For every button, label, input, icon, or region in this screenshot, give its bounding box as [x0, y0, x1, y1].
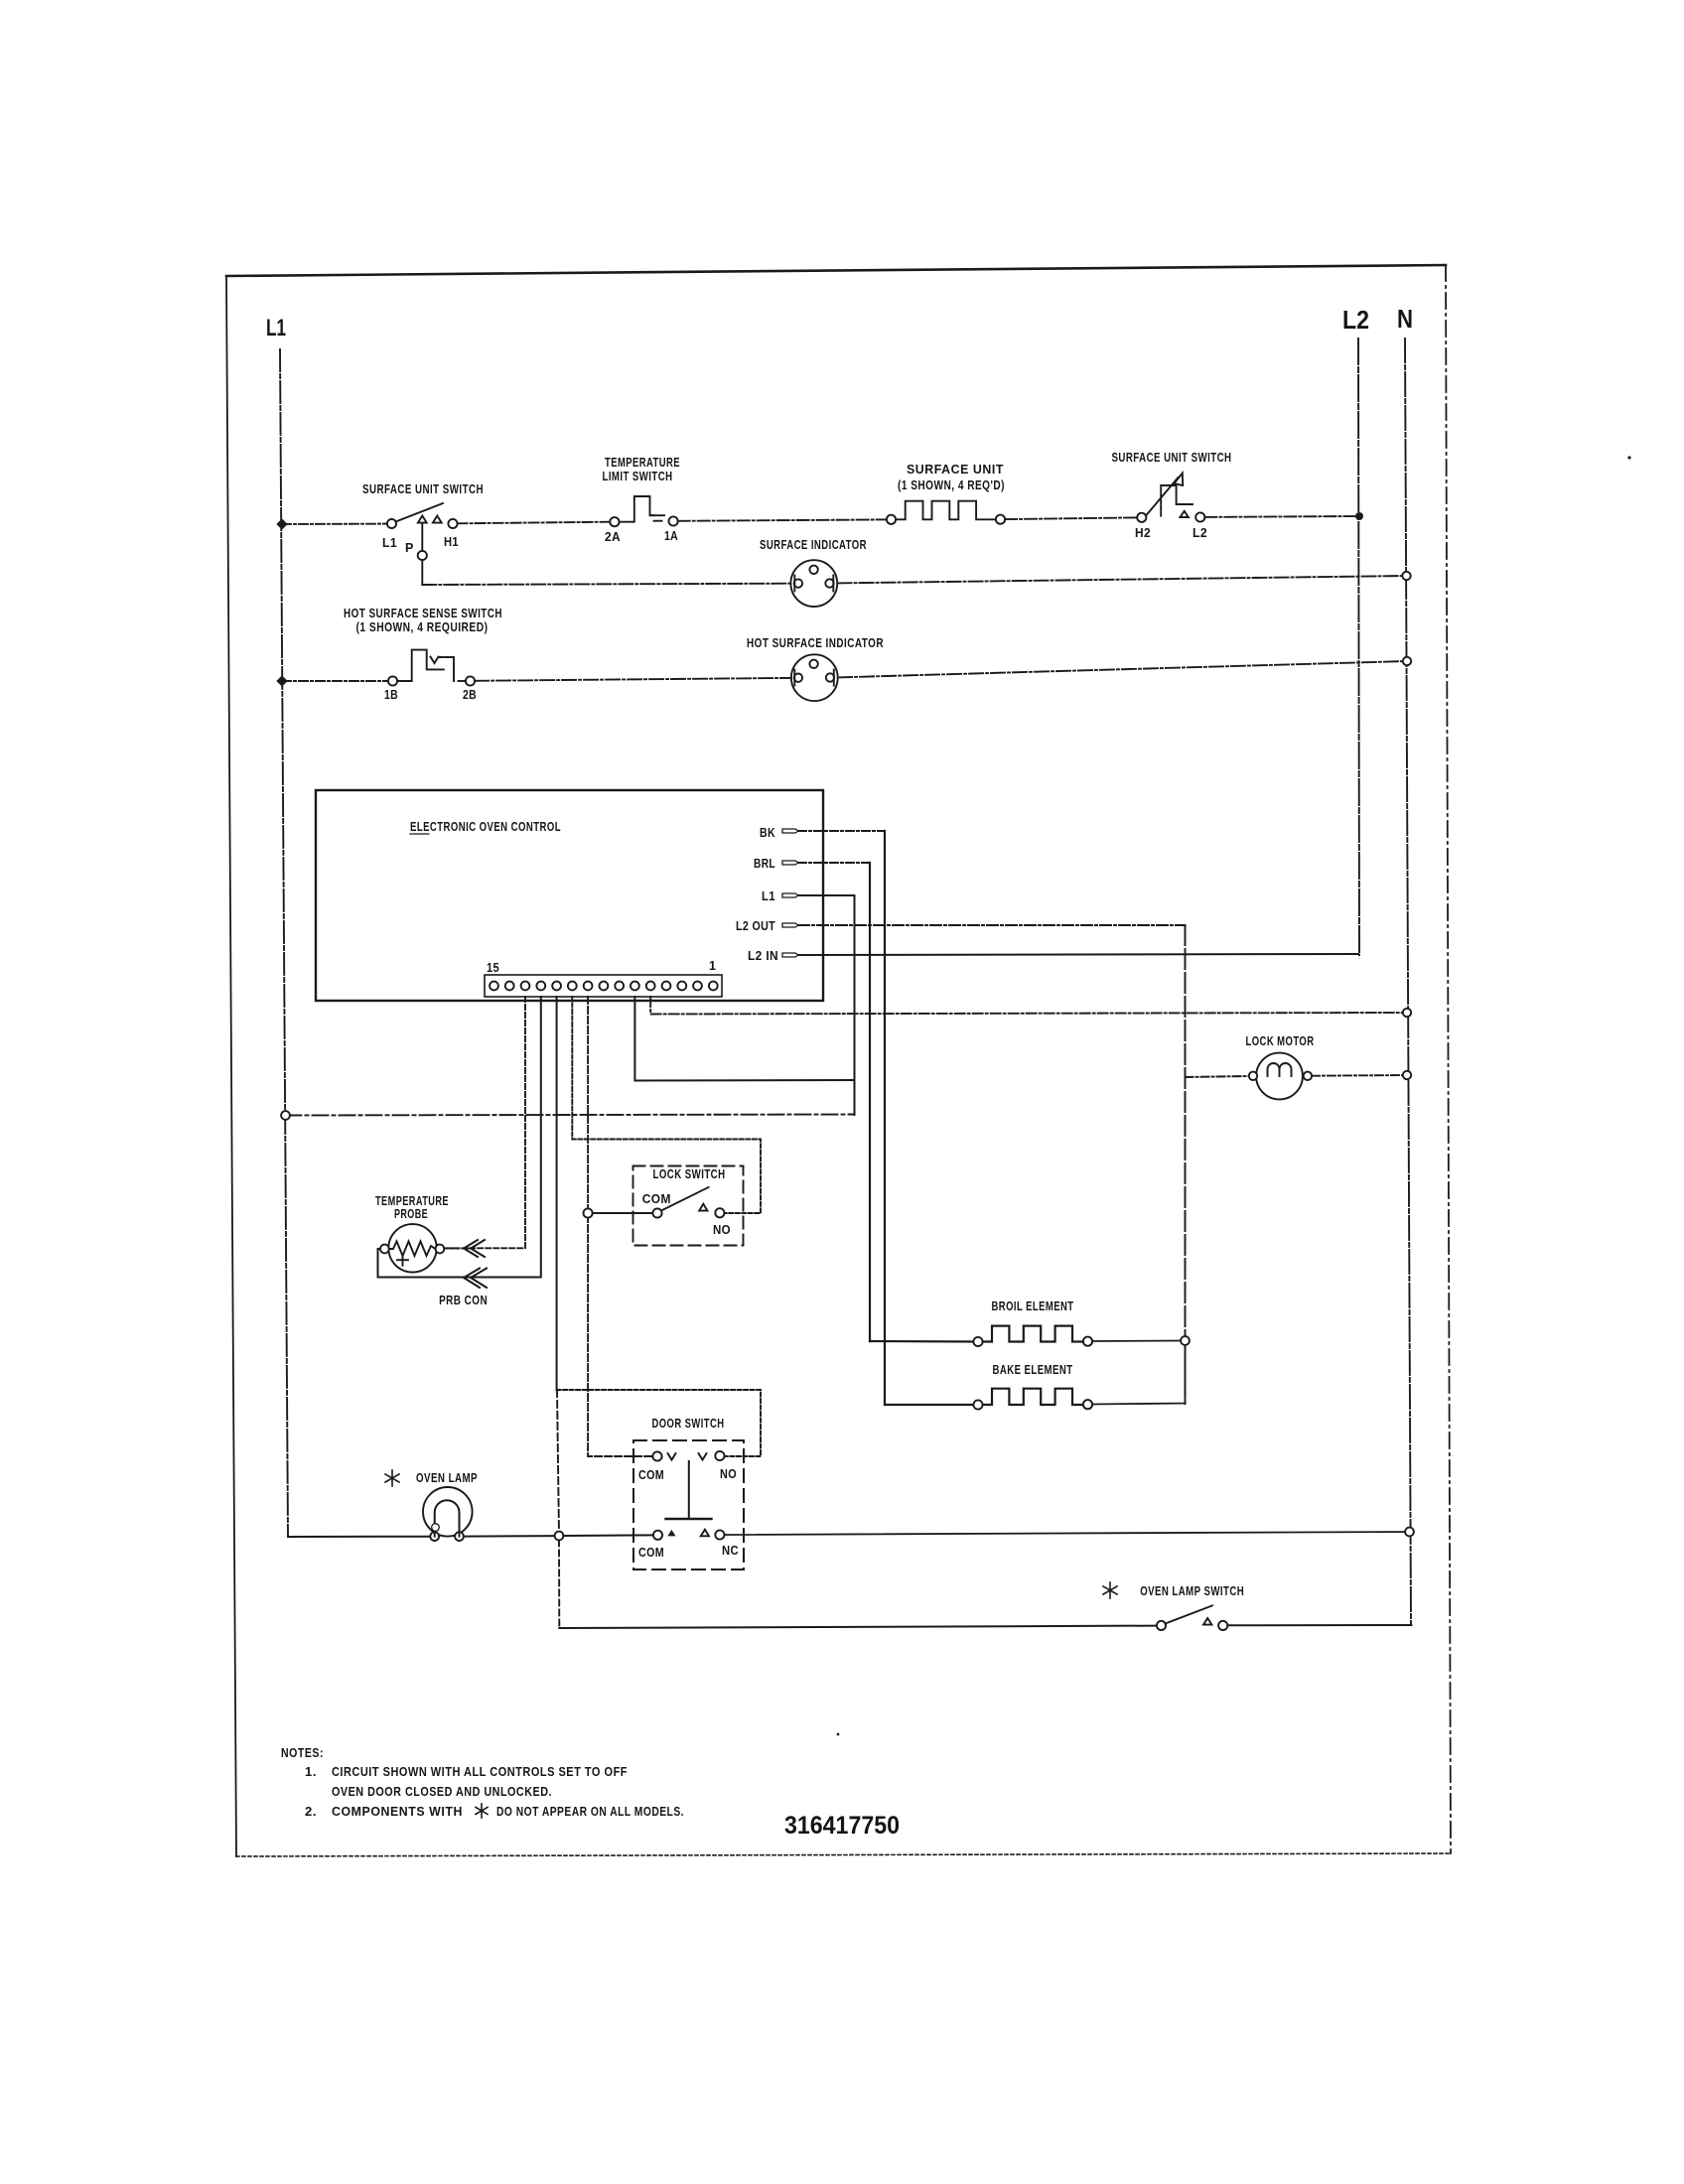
svg-text:N: N — [1397, 304, 1413, 334]
junction circle on N bus pin5 row — [1403, 1009, 1411, 1017]
wire L2 terminal to L2 bus — [1204, 515, 1359, 518]
svg-text:L2: L2 — [1342, 305, 1369, 335]
speck near part number — [837, 1733, 840, 1736]
wire lock motor row left — [1186, 1076, 1250, 1077]
wire row2 left — [422, 584, 790, 585]
wire row2 right to N bus — [838, 576, 1407, 583]
svg-text:L2 IN: L2 IN — [748, 949, 778, 963]
svg-text:PROBE: PROBE — [394, 1206, 428, 1221]
svg-text:NOTES:: NOTES: — [281, 1745, 324, 1760]
svg-text:COM: COM — [638, 1468, 664, 1482]
svg-text:15: 15 — [487, 961, 499, 975]
svg-text:TEMPERATURE: TEMPERATURE — [605, 455, 680, 470]
wire L1 bus vertical — [280, 349, 288, 1537]
junction circle broil/L2OUT — [1181, 1336, 1190, 1345]
wire BRL to broil element feed — [798, 862, 870, 864]
svg-text:2.: 2. — [305, 1804, 317, 1819]
svg-text:P: P — [405, 541, 414, 555]
wire lock motor row right to N bus — [1312, 1074, 1407, 1077]
svg-text:316417750: 316417750 — [784, 1812, 900, 1840]
wire L1 bus corner to oven lamp — [288, 1536, 430, 1538]
junction on L1 bus row1 — [276, 518, 287, 529]
wire L2 bus vertical — [1358, 339, 1359, 955]
wire block pin6 to L1 node — [634, 997, 854, 1081]
surface unit switch SW1 (left) — [387, 503, 458, 528]
wire L1 bus row to EOC L1 — [286, 1115, 855, 1116]
junction circle on N bus lamp row — [1405, 1528, 1414, 1537]
temperature limit switch S2 — [610, 496, 677, 526]
hot surface sense switch S3 — [388, 650, 475, 686]
wire block pin10 to lock switch NO — [572, 997, 761, 1213]
pin BRL — [754, 857, 798, 871]
op-box electronic oven control U1 — [316, 790, 823, 1001]
svg-text:BROIL ELEMENT: BROIL ELEMENT — [992, 1298, 1074, 1313]
junction circle on N bus lock motor row — [1403, 1071, 1411, 1079]
svg-text:CIRCUIT SHOWN WITH ALL CONTROL: CIRCUIT SHOWN WITH ALL CONTROLS SET TO O… — [332, 1764, 628, 1779]
svg-text:COM: COM — [642, 1192, 671, 1206]
svg-text:L1: L1 — [266, 315, 286, 341]
connector PRB CON top chevrons — [464, 1240, 485, 1257]
surface unit switch SW2 (right) — [1137, 474, 1204, 522]
wire bake row left — [885, 1404, 974, 1406]
svg-text:COMPONENTS WITH: COMPONENTS WITH — [332, 1804, 463, 1819]
wire L2 OUT to lock motor / elements vertical — [798, 924, 1186, 926]
svg-text:OVEN LAMP SWITCH: OVEN LAMP SWITCH — [1140, 1583, 1244, 1598]
wire L1 bus to surface unit switch L1 terminal — [282, 523, 387, 525]
svg-text:PRB CON: PRB CON — [439, 1293, 488, 1307]
svg-text:OVEN DOOR CLOSED AND UNLOCKED.: OVEN DOOR CLOSED AND UNLOCKED. — [332, 1784, 552, 1799]
pin BK — [760, 826, 798, 840]
hot surface indicator lamp DS2 — [791, 654, 838, 701]
broil element R2 — [973, 1326, 1092, 1347]
svg-text:COM: COM — [638, 1546, 664, 1560]
lock motor M1 — [1249, 1053, 1312, 1100]
svg-text:DOOR SWITCH: DOOR SWITCH — [652, 1416, 725, 1431]
svg-text:1B: 1B — [384, 688, 398, 702]
wire 1A to surface unit — [678, 519, 887, 520]
junction dot on L2 bus — [1355, 512, 1363, 520]
svg-text:LOCK SWITCH: LOCK SWITCH — [653, 1166, 726, 1181]
surface indicator lamp DS1 — [790, 560, 837, 607]
svg-text:OVEN LAMP: OVEN LAMP — [416, 1470, 478, 1485]
svg-text:1A: 1A — [664, 529, 678, 543]
svg-text:ELECTRONIC OVEN CONTROL: ELECTRONIC OVEN CONTROL — [410, 819, 561, 834]
wire broil row right to junction — [1092, 1340, 1185, 1343]
wire H1 to 2A — [458, 522, 610, 524]
wire block pin9 down to lock COM and door COM — [588, 997, 652, 1456]
wire row3 right to N bus — [838, 661, 1407, 677]
bake element R3 — [973, 1389, 1092, 1410]
pin L1 — [762, 889, 798, 903]
svg-text:HOT SURFACE INDICATOR: HOT SURFACE INDICATOR — [747, 635, 884, 650]
junction circle on N bus row3 — [1403, 657, 1411, 665]
svg-text:LOCK MOTOR: LOCK MOTOR — [1246, 1033, 1315, 1048]
svg-text:SURFACE UNIT: SURFACE UNIT — [907, 462, 1004, 477]
svg-text:H1: H1 — [444, 535, 459, 549]
oven lamp switch S6 — [1157, 1605, 1227, 1630]
connector PRB CON bottom chevrons — [464, 1269, 487, 1289]
wire block pin5 to N bus — [650, 997, 1407, 1015]
svg-text:2B: 2B — [463, 688, 477, 702]
junction circle on L1 bus — [281, 1111, 290, 1120]
svg-text:BK: BK — [760, 826, 775, 840]
svg-text:BRL: BRL — [754, 857, 775, 871]
wire oven lamp to junction — [464, 1535, 555, 1538]
wire junction to lock COM — [593, 1212, 653, 1214]
svg-text:(1 SHOWN, 4 REQUIRED): (1 SHOWN, 4 REQUIRED) — [356, 619, 489, 634]
svg-text:SURFACE INDICATOR: SURFACE INDICATOR — [760, 537, 867, 552]
svg-text:DO NOT APPEAR ON ALL MODELS.: DO NOT APPEAR ON ALL MODELS. — [496, 1804, 684, 1819]
svg-text:NC: NC — [722, 1544, 739, 1558]
wire 2B to hot surface indicator — [475, 678, 790, 681]
wire bake row right up to broil junction — [1092, 1345, 1185, 1405]
svg-text:LIMIT SWITCH: LIMIT SWITCH — [603, 469, 673, 483]
wire probe top to connector — [444, 1248, 469, 1250]
wire junction to door lower COM — [563, 1534, 653, 1537]
svg-text:L2 OUT: L2 OUT — [736, 919, 775, 933]
svg-text:(1 SHOWN, 4 REQ'D): (1 SHOWN, 4 REQ'D) — [898, 478, 1005, 492]
wire door NC to N bus — [725, 1532, 1410, 1535]
svg-text:BAKE ELEMENT: BAKE ELEMENT — [993, 1362, 1073, 1377]
door switch S5 — [633, 1440, 744, 1570]
pin L2 OUT — [736, 919, 798, 933]
wire broil row left — [870, 1340, 974, 1343]
svg-text:1: 1 — [709, 959, 716, 973]
svg-text:1.: 1. — [305, 1764, 317, 1779]
oven lamp DS3 — [423, 1487, 473, 1541]
svg-text:L1: L1 — [762, 889, 775, 903]
junction circle lamp row — [555, 1532, 564, 1541]
surface unit heating element R1 — [887, 501, 1005, 524]
wire surface unit to H2 — [1005, 517, 1137, 519]
temperature probe RT1 — [380, 1224, 444, 1272]
svg-text:2A: 2A — [605, 530, 621, 544]
wire N bus vertical — [1405, 339, 1411, 1625]
junction circle on N bus row2 — [1402, 572, 1410, 580]
wire L1 bus to 1B — [282, 680, 388, 682]
lock switch S4 — [633, 1166, 744, 1246]
wire pin11 branch down to lamp row — [557, 1390, 559, 1536]
wire probe bottom left leg — [378, 1249, 460, 1278]
asterisk oven lamp switch — [1103, 1582, 1117, 1598]
wire lamp switch row left — [559, 1626, 1157, 1628]
svg-text:L1: L1 — [382, 536, 397, 550]
speck top right — [1627, 456, 1630, 459]
asterisk oven lamp — [385, 1470, 399, 1486]
svg-text:H2: H2 — [1135, 526, 1151, 540]
svg-text:SURFACE UNIT SWITCH: SURFACE UNIT SWITCH — [362, 481, 484, 496]
svg-text:NO: NO — [713, 1223, 731, 1237]
junction on L1 bus row3 — [276, 675, 287, 686]
svg-text:L2: L2 — [1193, 526, 1207, 540]
wire L1 pin down — [798, 895, 855, 1115]
svg-text:HOT SURFACE SENSE SWITCH: HOT SURFACE SENSE SWITCH — [344, 606, 502, 620]
terminal block J1 — [485, 975, 722, 997]
wire P drop — [421, 523, 423, 585]
svg-text:SURFACE UNIT SWITCH: SURFACE UNIT SWITCH — [1112, 450, 1232, 465]
wire block pin12 to probe bottom — [378, 997, 541, 1278]
wire BK to bake element feed — [798, 830, 885, 832]
wire block pin13 to probe top — [445, 997, 526, 1248]
wire block pin11 down to door switch NO and lamp junction — [556, 997, 558, 1390]
wire lamp junction down — [558, 1540, 560, 1628]
terminal circle on P drop — [418, 551, 427, 560]
wire L2 IN to L2 bus — [798, 954, 1358, 955]
wire lamp switch to N bus — [1227, 1624, 1411, 1626]
pin L2 IN — [748, 949, 798, 963]
svg-text:NO: NO — [720, 1467, 737, 1481]
junction circle lock COM feed — [584, 1208, 593, 1217]
asterisk note 2 — [476, 1804, 488, 1818]
